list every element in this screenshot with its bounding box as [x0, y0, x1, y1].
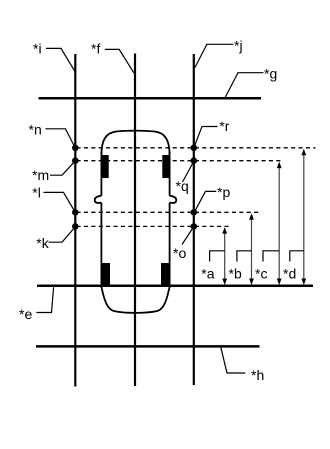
- car rear-left marker rectangle: [102, 263, 110, 286]
- leader j: [195, 44, 233, 67]
- svg-text:*c: *c: [255, 266, 267, 282]
- svg-text:*k: *k: [36, 235, 49, 251]
- svg-text:*m: *m: [32, 167, 49, 183]
- node p: [191, 209, 198, 216]
- node l: [72, 209, 79, 216]
- svg-text:*f: *f: [91, 41, 100, 57]
- svg-text:*g: *g: [264, 66, 277, 82]
- leader m: [50, 161, 75, 175]
- grid vertical line left: [74, 54, 76, 387]
- leader r: [194, 127, 218, 148]
- leader f: [105, 49, 134, 72]
- car rear-right marker rectangle: [161, 263, 169, 286]
- svg-text:*a: *a: [201, 266, 214, 282]
- dashed datum line 3: [77, 211, 261, 213]
- leader q: [183, 162, 194, 182]
- car front-left marker rectangle: [102, 155, 109, 178]
- svg-text:*o: *o: [173, 245, 186, 261]
- svg-text:*h: *h: [251, 367, 264, 383]
- node o: [191, 223, 198, 230]
- car front-right marker rectangle: [162, 155, 169, 178]
- grid horizontal line bottom second: [36, 345, 260, 348]
- leader i: [46, 48, 75, 71]
- svg-text:*e: *e: [19, 306, 32, 322]
- leader k: [49, 227, 76, 243]
- car body outline: [95, 131, 177, 313]
- leader l: [44, 192, 76, 212]
- hook leader b: [237, 251, 252, 262]
- node k: [72, 223, 79, 230]
- grid horizontal line top: [39, 97, 262, 100]
- grid vertical line center: [134, 54, 136, 387]
- dimension arrow b: [249, 213, 254, 285]
- leader h: [221, 347, 246, 373]
- node r: [191, 145, 198, 152]
- node n: [72, 145, 79, 152]
- dimension arrow d: [301, 149, 306, 285]
- leader e: [36, 287, 53, 312]
- leader o: [182, 227, 193, 244]
- svg-text:*b: *b: [229, 266, 242, 282]
- grid horizontal line bottom first: [37, 285, 313, 288]
- svg-text:*d: *d: [283, 266, 296, 282]
- node q: [191, 157, 198, 164]
- svg-text:*j: *j: [234, 38, 243, 54]
- svg-text:*p: *p: [217, 184, 230, 200]
- node m: [72, 157, 79, 164]
- svg-text:*i: *i: [33, 41, 42, 57]
- hook leader d: [290, 251, 304, 262]
- dashed datum line 2: [77, 160, 283, 162]
- dimension arrow a: [222, 227, 227, 285]
- leader p: [195, 191, 217, 211]
- leader n: [46, 129, 76, 148]
- svg-text:*q: *q: [176, 178, 189, 194]
- dimension arrow c: [277, 162, 282, 285]
- hook leader a: [210, 251, 225, 262]
- leader g: [225, 73, 264, 99]
- svg-text:*r: *r: [219, 118, 229, 134]
- dashed datum line 4: [77, 225, 232, 227]
- grid vertical line right: [193, 54, 195, 385]
- svg-text:*n: *n: [29, 122, 42, 138]
- svg-text:*l: *l: [32, 185, 41, 201]
- dashed datum line 1: [77, 147, 316, 149]
- hook leader c: [263, 251, 279, 262]
